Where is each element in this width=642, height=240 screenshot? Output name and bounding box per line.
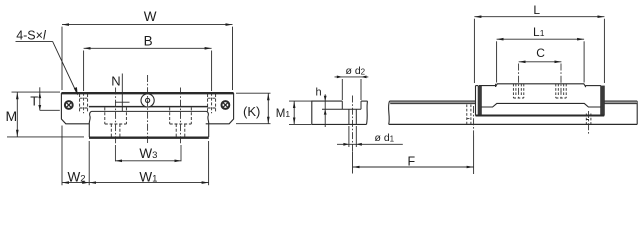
svg-text:N: N	[111, 73, 120, 88]
svg-text:M: M	[6, 108, 18, 124]
svg-text:T: T	[30, 94, 38, 109]
svg-text:L1: L1	[533, 25, 545, 39]
svg-text:W2: W2	[68, 170, 86, 185]
svg-text:W: W	[144, 9, 157, 24]
svg-text:M1: M1	[276, 108, 291, 120]
svg-text:L: L	[533, 3, 540, 17]
svg-text:W1: W1	[139, 170, 157, 185]
svg-text:F: F	[408, 154, 416, 168]
svg-text:(K): (K)	[243, 104, 260, 119]
svg-text:C: C	[536, 46, 545, 60]
svg-text:h: h	[316, 87, 322, 99]
svg-text:4-S×l: 4-S×l	[16, 29, 47, 43]
svg-text:ø d2: ø d2	[346, 65, 366, 77]
svg-text:ø d1: ø d1	[375, 132, 395, 144]
svg-text:B: B	[144, 33, 153, 48]
svg-text:W3: W3	[139, 146, 157, 161]
